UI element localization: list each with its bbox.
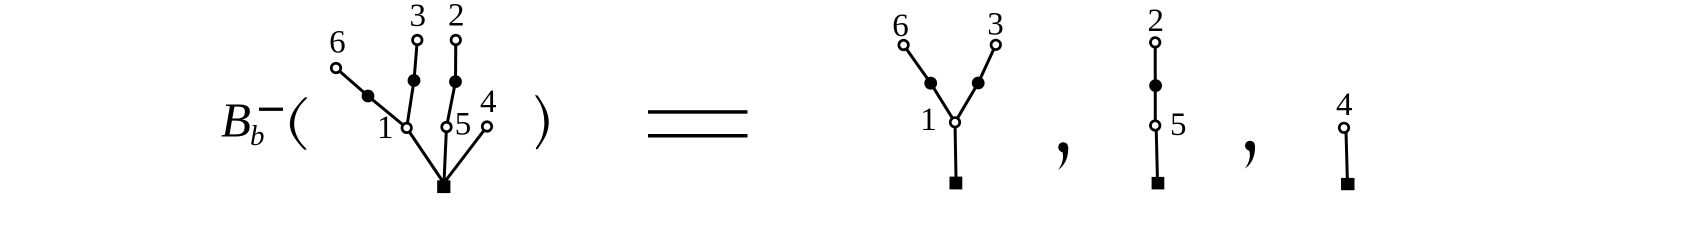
filled node on edge 3-1 (left tree): [408, 74, 421, 87]
node 1 (tree A): [950, 118, 960, 128]
node 5 (left tree): [442, 122, 452, 132]
svg-text:2: 2: [448, 0, 465, 34]
filled node on edge 3-1 (tree A): [972, 77, 985, 90]
root square (tree C): [1341, 178, 1355, 190]
filled node on edge 6-1 (left tree): [362, 90, 375, 103]
svg-text:4: 4: [480, 84, 497, 120]
edge 1-root (tree A): [955, 122, 956, 178]
svg-text:2: 2: [1148, 3, 1165, 39]
edge 4-root (tree C): [1346, 131, 1347, 179]
node 1 (left tree): [402, 123, 412, 132]
equals sign bottom bar: [648, 134, 748, 138]
svg-text:1: 1: [920, 102, 937, 138]
svg-text:5: 5: [1170, 107, 1187, 143]
superscript minus: [259, 108, 283, 111]
root square (tree A): [950, 177, 963, 190]
svg-text:B: B: [221, 93, 251, 148]
root square (left tree): [437, 180, 450, 193]
leaf node 3 (left tree): [413, 35, 423, 45]
svg-text:4: 4: [1336, 87, 1353, 123]
root square (tree B): [1152, 177, 1165, 190]
edge 6-dot-1 (tree A): [904, 45, 955, 122]
svg-text:6: 6: [329, 25, 346, 61]
right parenthesis: [536, 95, 549, 149]
leaf node 4 (tree C): [1339, 123, 1349, 133]
svg-text:b: b: [250, 120, 265, 152]
edge 4-root (left tree): [445, 127, 487, 182]
edge 2-dot-5 (left tree): [447, 40, 456, 127]
comma 2: [1245, 141, 1255, 169]
leaf node 3 (tree A): [991, 40, 1001, 50]
edge 1-root (left tree): [407, 128, 444, 183]
edge 2-dot-5 (tree B): [1154, 42, 1157, 125]
svg-text:1: 1: [377, 110, 394, 146]
svg-text:3: 3: [410, 0, 427, 34]
edge 6-dot-1 (left tree): [336, 68, 407, 128]
edge 5-root (left tree): [444, 127, 447, 182]
left parenthesis: [290, 97, 307, 150]
filled node on edge 2-5 (left tree): [449, 75, 462, 88]
svg-text:5: 5: [455, 107, 472, 143]
leaf node 2 (tree B): [1150, 38, 1160, 48]
filled node on edge 6-1 (tree A): [924, 77, 937, 90]
edge 3-dot-1 (left tree): [407, 40, 418, 128]
node 5 (tree B): [1150, 121, 1160, 131]
comma 1: [1058, 142, 1068, 170]
leaf node 2 (left tree): [451, 35, 461, 45]
filled node on edge 2-5 (tree B): [1149, 79, 1162, 92]
edge 5-root (tree B): [1156, 129, 1157, 177]
node 4 (left tree): [482, 122, 492, 132]
leaf node 6 (left tree): [331, 63, 341, 73]
equals sign top bar: [648, 110, 748, 114]
edge 3-dot-1 (tree A): [955, 45, 996, 123]
svg-text:3: 3: [987, 7, 1004, 43]
leaf node 6 (tree A): [899, 40, 909, 50]
svg-text:6: 6: [892, 8, 909, 44]
